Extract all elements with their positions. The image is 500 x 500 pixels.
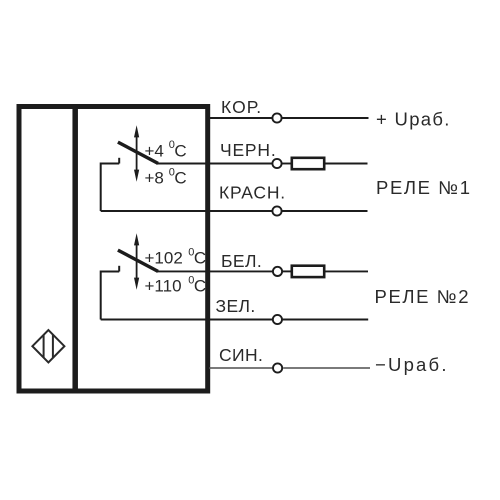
wire KOR (brown) — [209, 117, 272, 119]
switch SW1 blade — [118, 142, 158, 163]
svg-text:C: C — [194, 249, 206, 268]
svg-text:РЕЛЕ №2: РЕЛЕ №2 — [375, 286, 471, 307]
wire KOR right segment — [282, 117, 369, 119]
svg-text:+ Uраб.: + Uраб. — [376, 109, 451, 130]
switch SW2 thermal arrow — [134, 233, 139, 290]
wire R1 to right — [326, 163, 368, 165]
svg-text:+110: +110 — [145, 277, 182, 296]
svg-text:+4: +4 — [145, 141, 164, 160]
svg-text:ЧЕРН.: ЧЕРН. — [220, 140, 277, 160]
switch SW2 blade — [118, 250, 158, 271]
terminal circle KRASN — [272, 206, 281, 215]
wire: SW1 contact to KRASN (L-shape) — [101, 164, 120, 212]
svg-text:−Uраб.: −Uраб. — [375, 354, 449, 375]
switch SW1 fixed contact tick — [118, 158, 120, 164]
svg-text:ЗЕЛ.: ЗЕЛ. — [216, 296, 256, 316]
sensor body divider — [72, 104, 78, 394]
wire KRASN (red) from L-wire through wall — [101, 210, 273, 212]
terminal circle SIN — [273, 363, 282, 372]
resistor R2 — [292, 266, 324, 277]
wire SIN (blue) left segment — [209, 367, 272, 369]
svg-text:+8: +8 — [145, 169, 164, 188]
wire CHERN to resistor — [282, 163, 291, 165]
terminal circle KOR — [272, 113, 281, 122]
wire BEL to resistor — [282, 270, 290, 272]
svg-text:СИН.: СИН. — [219, 345, 263, 365]
wire: SW2 contact to ZEL (L-shape) — [101, 272, 120, 320]
terminal circle BEL — [273, 267, 282, 276]
terminal circle CHERN — [272, 159, 281, 168]
svg-text:КОР.: КОР. — [221, 97, 262, 117]
svg-text:C: C — [174, 141, 186, 160]
wire ZEL (green) from L-wire through wall — [101, 319, 273, 321]
switch SW1 thermal arrow — [134, 125, 139, 182]
wire CHERN (black) from switch through wall — [156, 163, 272, 165]
svg-text:+102: +102 — [145, 249, 183, 268]
switch SW2 fixed contact tick — [118, 266, 120, 272]
wire ZEL right segment — [282, 319, 368, 321]
sensing face diamond symbol — [32, 330, 64, 362]
sensor body outline — [19, 107, 208, 392]
svg-text:БЕЛ.: БЕЛ. — [221, 251, 262, 271]
wire KRASN right segment — [282, 210, 368, 212]
wire BEL (white) from switch2 through wall — [156, 270, 273, 272]
svg-text:C: C — [194, 277, 206, 296]
wire SIN right segment — [283, 367, 370, 369]
svg-text:РЕЛЕ №1: РЕЛЕ №1 — [376, 177, 472, 198]
svg-text:C: C — [174, 169, 186, 188]
terminal circle ZEL — [273, 315, 282, 324]
resistor R1 — [292, 158, 324, 169]
svg-text:КРАСН.: КРАСН. — [219, 182, 286, 202]
wire R2 to right — [326, 270, 369, 272]
